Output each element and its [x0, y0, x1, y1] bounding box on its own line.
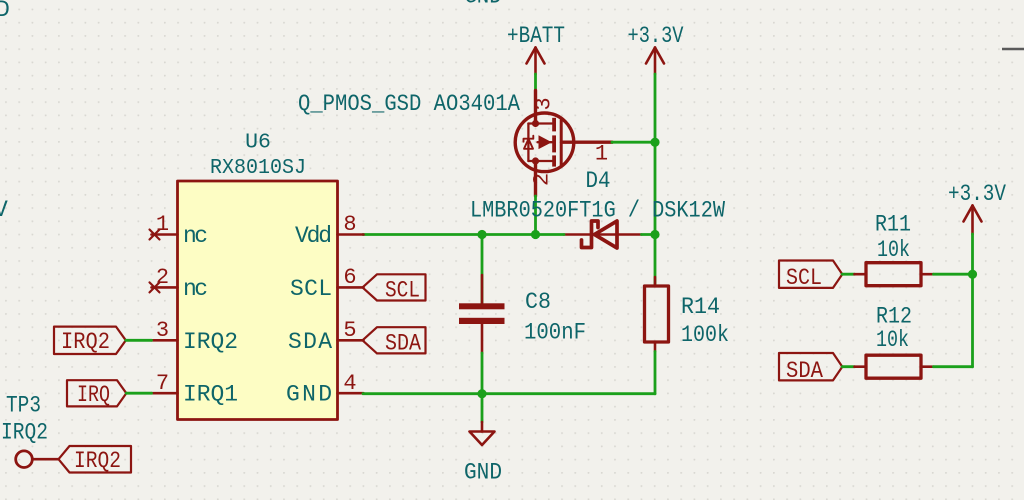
svg-text:SCL: SCL	[385, 278, 420, 304]
svg-text:V: V	[0, 197, 8, 223]
svg-text:IRQ: IRQ	[77, 382, 110, 408]
power symbol +3.3V (right)	[964, 206, 982, 235]
svg-text:R11: R11	[875, 212, 911, 238]
svg-text:10k: 10k	[876, 327, 909, 353]
nc cross pin1	[150, 230, 160, 240]
transistor Q (AO3401A)	[515, 91, 612, 197]
svg-text:+3.3V: +3.3V	[948, 181, 1006, 207]
svg-text:SDA: SDA	[385, 331, 421, 357]
junction rail/R11	[968, 270, 977, 279]
wire SCL to R11	[842, 273, 854, 276]
svg-text:6: 6	[343, 265, 356, 290]
transistor body diode	[524, 136, 534, 149]
junction gate rail	[650, 138, 659, 147]
junction Vdd/C8	[477, 230, 486, 239]
svg-text:SDA: SDA	[786, 358, 823, 384]
pin numbers right	[343, 212, 356, 396]
wire IRQ to pin 7	[126, 392, 151, 395]
nc cross pin2	[150, 282, 160, 292]
svg-text:RX8010SJ: RX8010SJ	[210, 156, 306, 180]
svg-text:100k: 100k	[681, 322, 729, 348]
svg-text:IRQ2: IRQ2	[74, 448, 121, 474]
junction rail/diode	[650, 230, 659, 239]
resistor R12	[855, 365, 867, 368]
resistor R11	[855, 273, 867, 276]
svg-text:SCL: SCL	[290, 276, 332, 302]
svg-text:TP3: TP3	[6, 393, 41, 419]
power symbol +3.3V (top)	[646, 48, 664, 75]
pin names	[183, 223, 332, 408]
wire GND stem	[481, 394, 484, 422]
svg-text:GND: GND	[464, 0, 502, 10]
IC U6 body	[178, 181, 338, 420]
svg-text:3: 3	[532, 97, 557, 110]
svg-text:1: 1	[156, 212, 169, 237]
capacitor C8	[481, 235, 484, 305]
svg-text:GND: GND	[464, 460, 502, 486]
power symbol +BATT	[527, 48, 545, 75]
pin numbers left	[156, 212, 169, 396]
junction Vdd/Q2	[531, 230, 540, 239]
transistor arrow	[539, 135, 552, 149]
svg-text:3: 3	[156, 318, 169, 343]
transistor S/D dots	[532, 120, 539, 127]
testpoint TP3	[16, 451, 33, 468]
svg-text:SDA: SDA	[288, 329, 332, 355]
svg-text:2: 2	[156, 265, 169, 290]
svg-text:+BATT: +BATT	[507, 23, 565, 49]
svg-text:Vdd: Vdd	[295, 223, 332, 249]
wire IRQ2 to pin 3	[126, 339, 152, 342]
wire R11 to rail	[934, 273, 973, 276]
svg-text:nc: nc	[183, 276, 208, 302]
svg-text:IRQ2: IRQ2	[1, 420, 48, 446]
svg-text:7: 7	[156, 371, 169, 396]
global label SCL (pullup)	[779, 261, 842, 288]
wire Vdd row	[363, 233, 564, 236]
IC pin stubs left	[152, 235, 178, 394]
svg-text:U6: U6	[245, 131, 271, 155]
svg-text:4: 4	[343, 371, 356, 396]
sheet line fragment top right	[1002, 48, 1024, 50]
svg-text:1: 1	[595, 142, 608, 167]
wire +3.3V down to gate junction	[654, 74, 657, 235]
svg-text:GND: GND	[286, 382, 332, 408]
wire rail right	[971, 234, 974, 367]
svg-text:8: 8	[343, 212, 356, 237]
svg-text:D: D	[0, 0, 10, 23]
wire PMOS drain down	[534, 196, 537, 235]
diode D4	[564, 233, 642, 236]
global label SDA	[363, 327, 426, 353]
svg-text:2: 2	[530, 173, 555, 186]
svg-text:R12: R12	[876, 304, 912, 330]
svg-text:C8: C8	[525, 289, 551, 315]
svg-text:IRQ2: IRQ2	[61, 329, 110, 355]
wire gate to +3.3V rail	[612, 141, 655, 144]
junction GND/C8	[477, 389, 486, 398]
resistor R14	[654, 235, 657, 287]
wire GND row	[363, 392, 655, 395]
global label SCL	[363, 274, 426, 300]
svg-text:100nF: 100nF	[524, 320, 586, 346]
svg-text:IRQ2: IRQ2	[183, 329, 238, 355]
global label IRQ	[67, 380, 126, 406]
wire SDA to R12	[842, 365, 854, 368]
svg-text:+3.3V: +3.3V	[628, 23, 684, 49]
ground symbol	[470, 422, 495, 445]
svg-text:10k: 10k	[877, 237, 910, 263]
svg-text:Q_PMOS_GSD AO3401A: Q_PMOS_GSD AO3401A	[298, 91, 520, 117]
wire +BATT stem	[534, 74, 537, 91]
global label IRQ2 (left)	[54, 327, 126, 354]
svg-text:R14: R14	[681, 294, 720, 320]
svg-text:nc: nc	[183, 223, 208, 249]
svg-text:IRQ1: IRQ1	[183, 382, 238, 408]
IC pin stubs right	[338, 235, 364, 394]
svg-text:SCL: SCL	[786, 265, 822, 291]
wire diode to rail	[642, 233, 656, 236]
global label IRQ2 (testpoint)	[59, 446, 132, 473]
wire R12 to rail	[934, 365, 973, 368]
svg-text:5: 5	[343, 318, 356, 343]
svg-text:D4: D4	[586, 168, 611, 194]
transistor channel dashes	[554, 118, 561, 167]
global label SDA (pullup)	[779, 353, 842, 380]
